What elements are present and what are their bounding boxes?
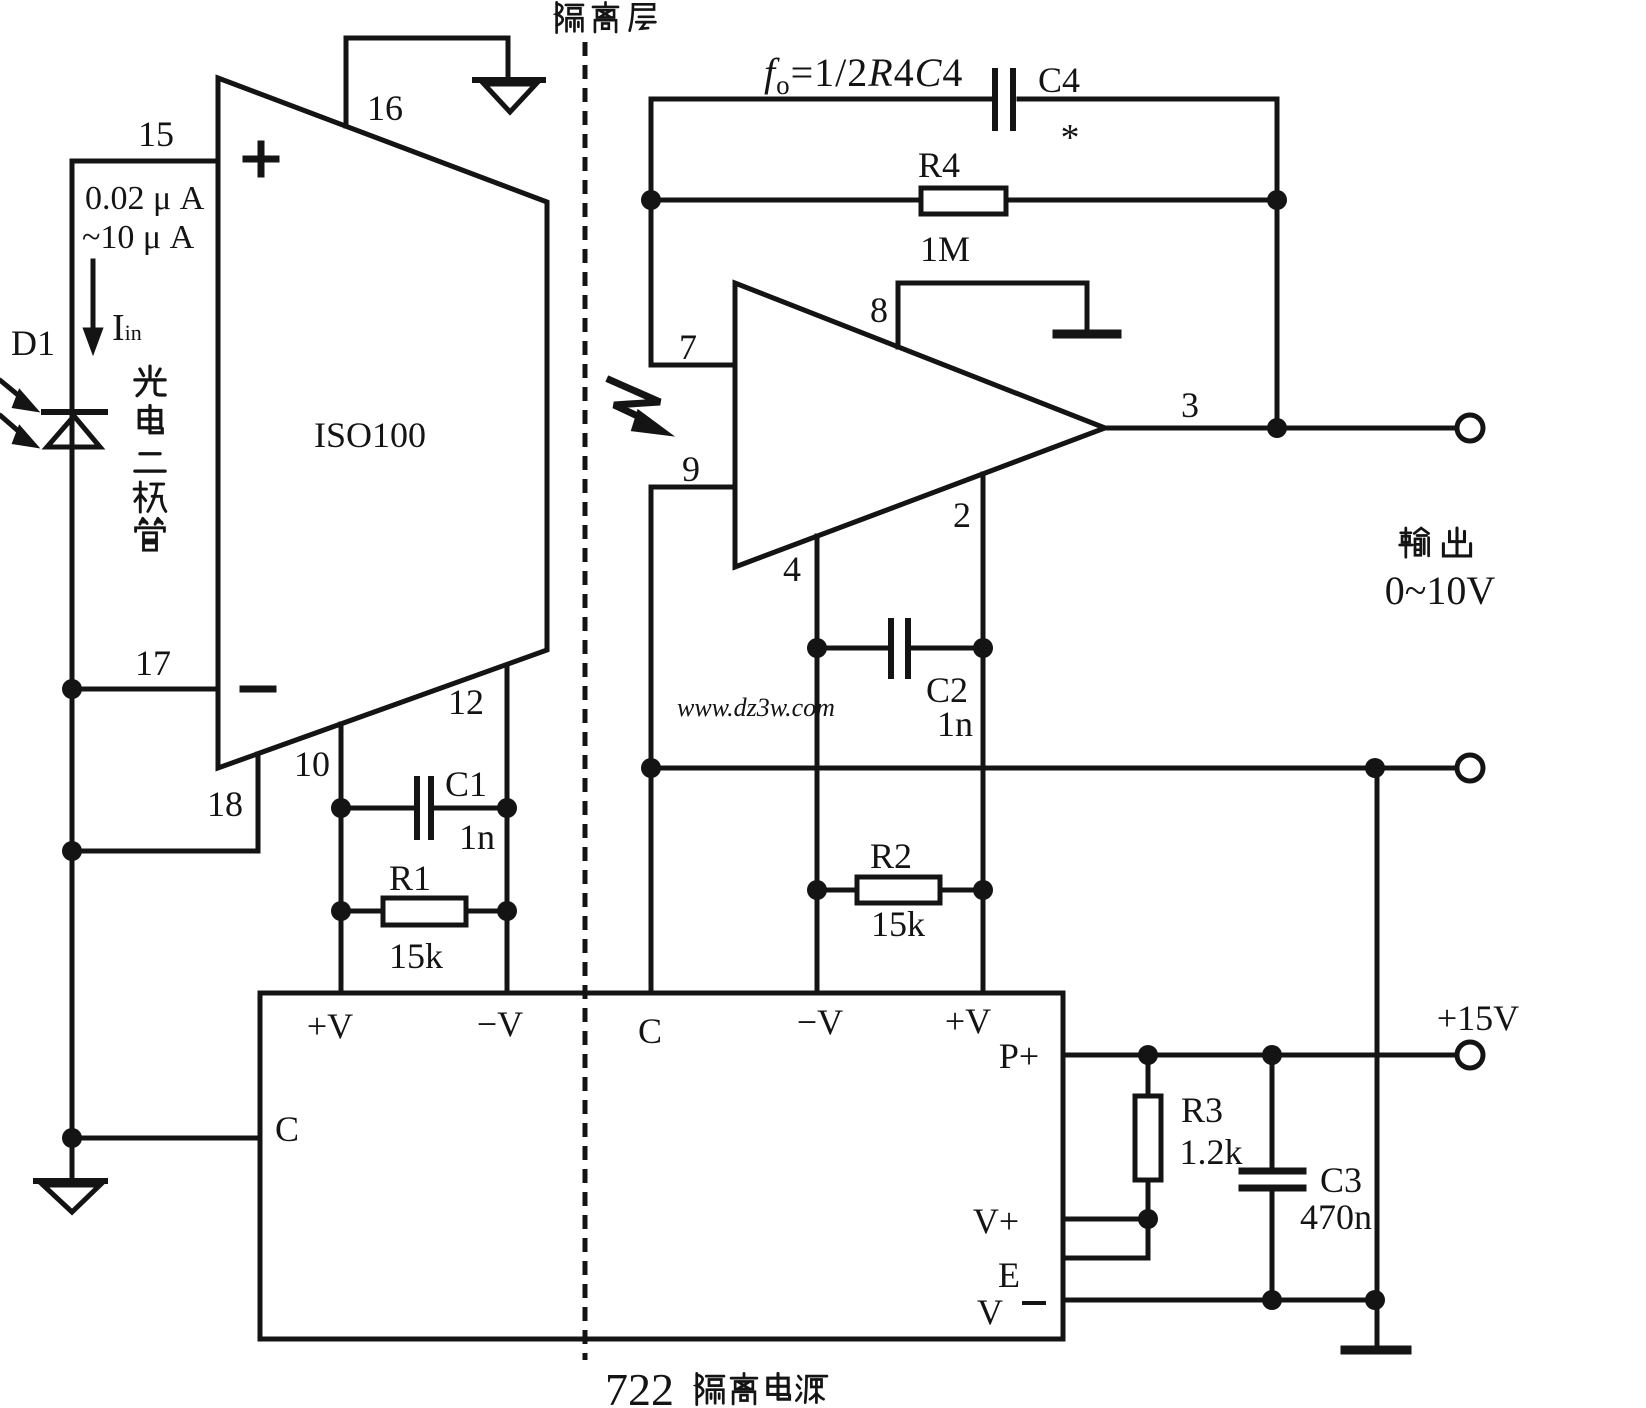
- svg-text:C1: C1: [445, 764, 487, 804]
- svg-text:+15V: +15V: [1437, 998, 1519, 1038]
- svg-text:*: *: [1061, 117, 1080, 159]
- svg-text:D1: D1: [11, 323, 55, 363]
- svg-text:0.02 μ A: 0.02 μ A: [85, 180, 205, 217]
- svg-text:17: 17: [135, 643, 171, 683]
- svg-text:3: 3: [1181, 385, 1199, 425]
- svg-text:+V: +V: [945, 1001, 991, 1041]
- svg-text:V+: V+: [973, 1201, 1019, 1241]
- svg-text:R3: R3: [1181, 1090, 1223, 1130]
- svg-text:2: 2: [953, 495, 971, 535]
- svg-text:9: 9: [682, 449, 700, 489]
- svg-text:10: 10: [294, 744, 330, 784]
- svg-text:C: C: [275, 1109, 299, 1149]
- svg-text:470n: 470n: [1300, 1197, 1372, 1237]
- svg-text:−V: −V: [797, 1002, 843, 1042]
- svg-text:15k: 15k: [871, 904, 925, 944]
- svg-text:V: V: [977, 1292, 1003, 1332]
- svg-text:−V: −V: [477, 1004, 523, 1044]
- svg-text:R2: R2: [870, 836, 912, 876]
- svg-text:R1: R1: [389, 858, 431, 898]
- svg-text:15k: 15k: [389, 936, 443, 976]
- svg-text:E: E: [998, 1255, 1020, 1295]
- svg-text:18: 18: [207, 784, 243, 824]
- svg-text:8: 8: [870, 290, 888, 330]
- svg-text:1.2k: 1.2k: [1180, 1132, 1243, 1172]
- svg-text:1M: 1M: [920, 229, 970, 269]
- svg-text:1n: 1n: [937, 704, 973, 744]
- svg-text:7: 7: [679, 327, 697, 367]
- svg-text:C: C: [638, 1011, 662, 1051]
- svg-text:1n: 1n: [459, 817, 495, 857]
- svg-text:www.dz3w.com: www.dz3w.com: [677, 693, 835, 722]
- svg-text:15: 15: [138, 114, 174, 154]
- svg-text:C4: C4: [1038, 60, 1080, 100]
- svg-text:ISO100: ISO100: [314, 415, 426, 455]
- svg-text:~10 μ A: ~10 μ A: [82, 219, 195, 256]
- svg-text:R4: R4: [918, 145, 960, 185]
- svg-text:16: 16: [367, 88, 403, 128]
- svg-text:fo=1/2R4C4: fo=1/2R4C4: [764, 50, 963, 100]
- svg-text:722: 722: [605, 1364, 674, 1408]
- svg-text:+V: +V: [307, 1006, 353, 1046]
- svg-text:12: 12: [448, 682, 484, 722]
- svg-text:Iin: Iin: [112, 307, 142, 349]
- svg-text:4: 4: [783, 549, 801, 589]
- svg-text:C3: C3: [1320, 1160, 1362, 1200]
- svg-text:P+: P+: [999, 1036, 1039, 1076]
- svg-text:0~10V: 0~10V: [1385, 568, 1496, 613]
